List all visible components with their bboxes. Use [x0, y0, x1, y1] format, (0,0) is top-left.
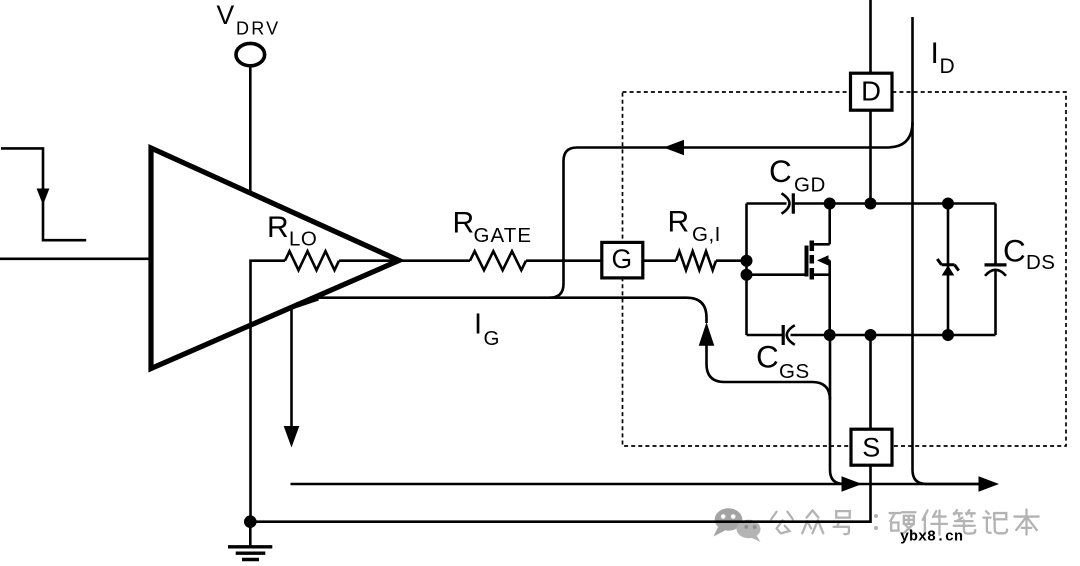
zener body diode [942, 265, 955, 275]
resistor RLO [285, 251, 339, 270]
svg-text:G: G [611, 244, 632, 274]
MOSFET Q1 gate bar [805, 246, 809, 277]
IG gate current path [310, 298, 830, 400]
arrow up on IG path [699, 322, 715, 346]
svg-text:S: S [862, 433, 880, 463]
resistor RGATE [470, 251, 526, 270]
svg-text:LO: LO [289, 228, 317, 251]
arrow left on top branch [664, 140, 685, 155]
svg-text:D: D [861, 75, 881, 106]
CGD charge current branch [550, 122, 913, 298]
source return vertical [830, 335, 850, 484]
VDRV terminal circle [236, 43, 265, 65]
driver amplifier triangle U1 [151, 148, 399, 369]
arrow right end [979, 476, 1000, 491]
svg-text:C: C [756, 338, 779, 374]
svg-text:C: C [769, 153, 792, 189]
body diode branch [947, 204, 950, 336]
waveform arrow down [37, 189, 50, 206]
drain terminal leg [869, 0, 872, 204]
MOSFET channel segments [810, 241, 815, 280]
wire RGATE to G terminal [526, 259, 601, 262]
svg-text:R: R [453, 206, 475, 239]
svg-text:C: C [1003, 233, 1026, 269]
svg-text:ybx8.cn: ybx8.cn [900, 529, 963, 546]
ground junction dot [244, 515, 257, 528]
arrow right mid [842, 476, 863, 491]
dashed MOSFET model boundary box [623, 92, 1067, 446]
terminal box S [851, 429, 892, 465]
svg-text:V: V [217, 0, 235, 30]
svg-text:I: I [931, 37, 939, 70]
ID external drain current line [913, 17, 980, 484]
capacitor CGS [782, 325, 785, 345]
capacitor CDS [985, 263, 1007, 266]
terminal box D [851, 73, 893, 110]
input falling-edge waveform [1, 148, 86, 240]
VDRV supply line [249, 67, 252, 193]
svg-text:GATE: GATE [474, 224, 533, 247]
wire RLO to output node [339, 259, 400, 262]
svg-text:I: I [474, 309, 482, 341]
source terminal leg to ground [250, 335, 870, 522]
svg-text:GS: GS [779, 360, 810, 383]
ground symbol [249, 522, 252, 547]
watermark wechat icon [714, 508, 761, 542]
svg-text:DS: DS [1026, 251, 1055, 274]
junction dots gate node [741, 255, 753, 267]
stub at triangle edge [297, 298, 319, 305]
svg-text:R: R [668, 205, 690, 238]
capacitor CGD [782, 193, 790, 213]
MOSFET body arrow [821, 260, 830, 335]
input wire [0, 257, 152, 260]
junction dots top rail [824, 198, 836, 210]
svg-text:D: D [940, 55, 955, 78]
wire driver output to RGATE [399, 259, 470, 262]
MOSFET source lead [812, 273, 830, 276]
svg-text:G,I: G,I [692, 223, 721, 246]
long return line [291, 483, 980, 486]
svg-text:G: G [484, 327, 500, 350]
wire RGI to gate node [716, 259, 747, 262]
MOSFET drain lead [812, 204, 830, 245]
svg-text:GD: GD [794, 173, 826, 196]
junction dots bottom rail [824, 329, 836, 341]
gate-side left rail of MOSFET model [745, 204, 748, 336]
wire G terminal to RGI [644, 259, 676, 262]
svg-text:R: R [267, 211, 289, 244]
RLO pull-down rail wire [251, 261, 286, 522]
watermark text 公众号 [771, 510, 1038, 535]
resistor RGI [676, 251, 716, 270]
terminal box G [602, 242, 643, 278]
svg-text:DRV: DRV [236, 18, 280, 38]
top rail drain node wire [747, 202, 996, 205]
sink current arrow below triangle [290, 306, 293, 427]
bottom rail source node wire [747, 334, 996, 337]
MOSFET gate lead [747, 273, 807, 276]
right rail with CDS [994, 204, 997, 336]
